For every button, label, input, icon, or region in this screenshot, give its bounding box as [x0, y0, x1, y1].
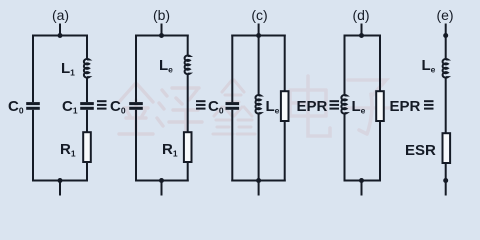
resistor ESR body — [443, 133, 451, 163]
wire top stub a — [59, 24, 61, 36]
wire top stub b — [161, 24, 163, 36]
svg-text:(d): (d) — [352, 7, 369, 23]
wire right branch b top — [187, 35, 189, 57]
capacitor C0c plate bottom — [226, 107, 240, 110]
equivalence sign between d and e — [424, 100, 434, 109]
node top b — [159, 33, 164, 38]
svg-text:(e): (e) — [436, 7, 453, 23]
wire top rail b — [135, 35, 189, 37]
wire right branch d top — [379, 35, 381, 92]
wire top rail c — [231, 35, 285, 37]
inductor Le b — [185, 55, 190, 74]
svg-text:(b): (b) — [153, 7, 170, 23]
wire bottom stub c — [258, 181, 260, 196]
wire bottom stub d — [361, 181, 363, 196]
wire bottom stub b — [161, 181, 163, 196]
watermark glyph jin — [119, 84, 153, 134]
wire bottom rail c — [231, 180, 285, 182]
node top d — [359, 33, 364, 38]
wire middle branch c lower — [258, 113, 260, 181]
wire right branch d bottom — [379, 121, 381, 182]
wire bottom rail a — [32, 180, 88, 182]
resistor EPR d body — [376, 91, 384, 121]
svg-text:(c): (c) — [251, 7, 267, 23]
wire middle branch c upper — [258, 35, 260, 96]
svg-text:(a): (a) — [52, 7, 69, 23]
wire right branch b bottom — [187, 162, 189, 182]
wire e top — [445, 24, 447, 60]
wire bottom stub a — [59, 181, 61, 196]
wire right branch a mid2 — [86, 110, 88, 132]
wire left branch b upper — [135, 35, 137, 103]
equivalence sign between b and c — [196, 100, 206, 109]
node top c — [256, 33, 261, 38]
equivalence sign between a and b — [97, 100, 107, 109]
resistor R1 b body — [184, 132, 192, 162]
wire left branch c upper — [231, 35, 233, 103]
node bottom a — [58, 178, 63, 183]
wire top stub c — [258, 24, 260, 36]
node top e — [443, 33, 448, 38]
node bottom b — [159, 178, 164, 183]
wire top stub d — [361, 24, 363, 36]
capacitor C0b plate bottom — [129, 107, 143, 110]
node bottom e — [443, 178, 448, 183]
wire top rail a — [32, 35, 88, 37]
wire top rail d — [344, 35, 382, 37]
resistor R1 body — [83, 132, 91, 162]
capacitor C1 plate top — [80, 102, 94, 105]
inductor Le d — [341, 95, 346, 114]
wire right branch c bottom — [284, 121, 286, 182]
svg-text:EPR: EPR — [390, 98, 421, 115]
wire e bottom — [445, 163, 447, 196]
wire left branch a upper — [32, 35, 34, 103]
watermark glyph ze — [157, 88, 202, 140]
wire left branch a lower — [32, 110, 34, 182]
svg-text:EPR: EPR — [297, 98, 328, 115]
wire right branch b mid — [187, 74, 189, 132]
watermark glyph zi — [345, 80, 390, 134]
wire right branch a top — [86, 35, 88, 60]
capacitor C0 plate top — [26, 102, 40, 105]
inductor L1 — [84, 59, 89, 78]
node top a — [58, 33, 63, 38]
wire left branch d upper — [344, 35, 346, 96]
equivalence sign between c and d — [330, 100, 340, 109]
capacitor C0 plate bottom — [26, 107, 40, 110]
wire right branch a mid1 — [86, 77, 88, 102]
watermark glyph xin — [213, 80, 255, 134]
node bottom d — [359, 178, 364, 183]
watermark glyph dian — [290, 76, 330, 136]
resistor EPR c body — [281, 91, 289, 121]
capacitor C1 plate bottom — [80, 107, 94, 110]
capacitor C0c plate top — [226, 102, 240, 105]
wire left branch b lower — [135, 110, 137, 182]
wire e mid — [445, 77, 447, 133]
node bottom c — [256, 178, 261, 183]
wire left branch c lower — [231, 110, 233, 182]
wire bottom rail b — [135, 180, 189, 182]
capacitor C0b plate top — [129, 102, 143, 105]
svg-text:ESR: ESR — [405, 142, 436, 159]
inductor Le e — [443, 59, 448, 78]
wire bottom rail d — [344, 180, 382, 182]
wire left branch d lower — [344, 113, 346, 181]
wire right branch a bottom — [86, 162, 88, 182]
inductor Le c — [255, 95, 260, 114]
wire right branch c top — [284, 35, 286, 92]
